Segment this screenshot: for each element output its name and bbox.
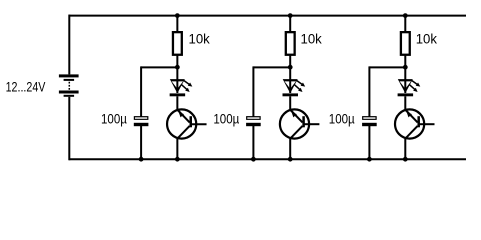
svg-text:10k: 10k (301, 32, 323, 48)
svg-text:100µ: 100µ (101, 111, 127, 126)
svg-text:10k: 10k (189, 32, 211, 48)
svg-text:12...24V: 12...24V (6, 79, 46, 95)
svg-text:100µ: 100µ (329, 111, 355, 126)
svg-text:10k: 10k (416, 32, 438, 48)
svg-text:100µ: 100µ (213, 111, 239, 126)
